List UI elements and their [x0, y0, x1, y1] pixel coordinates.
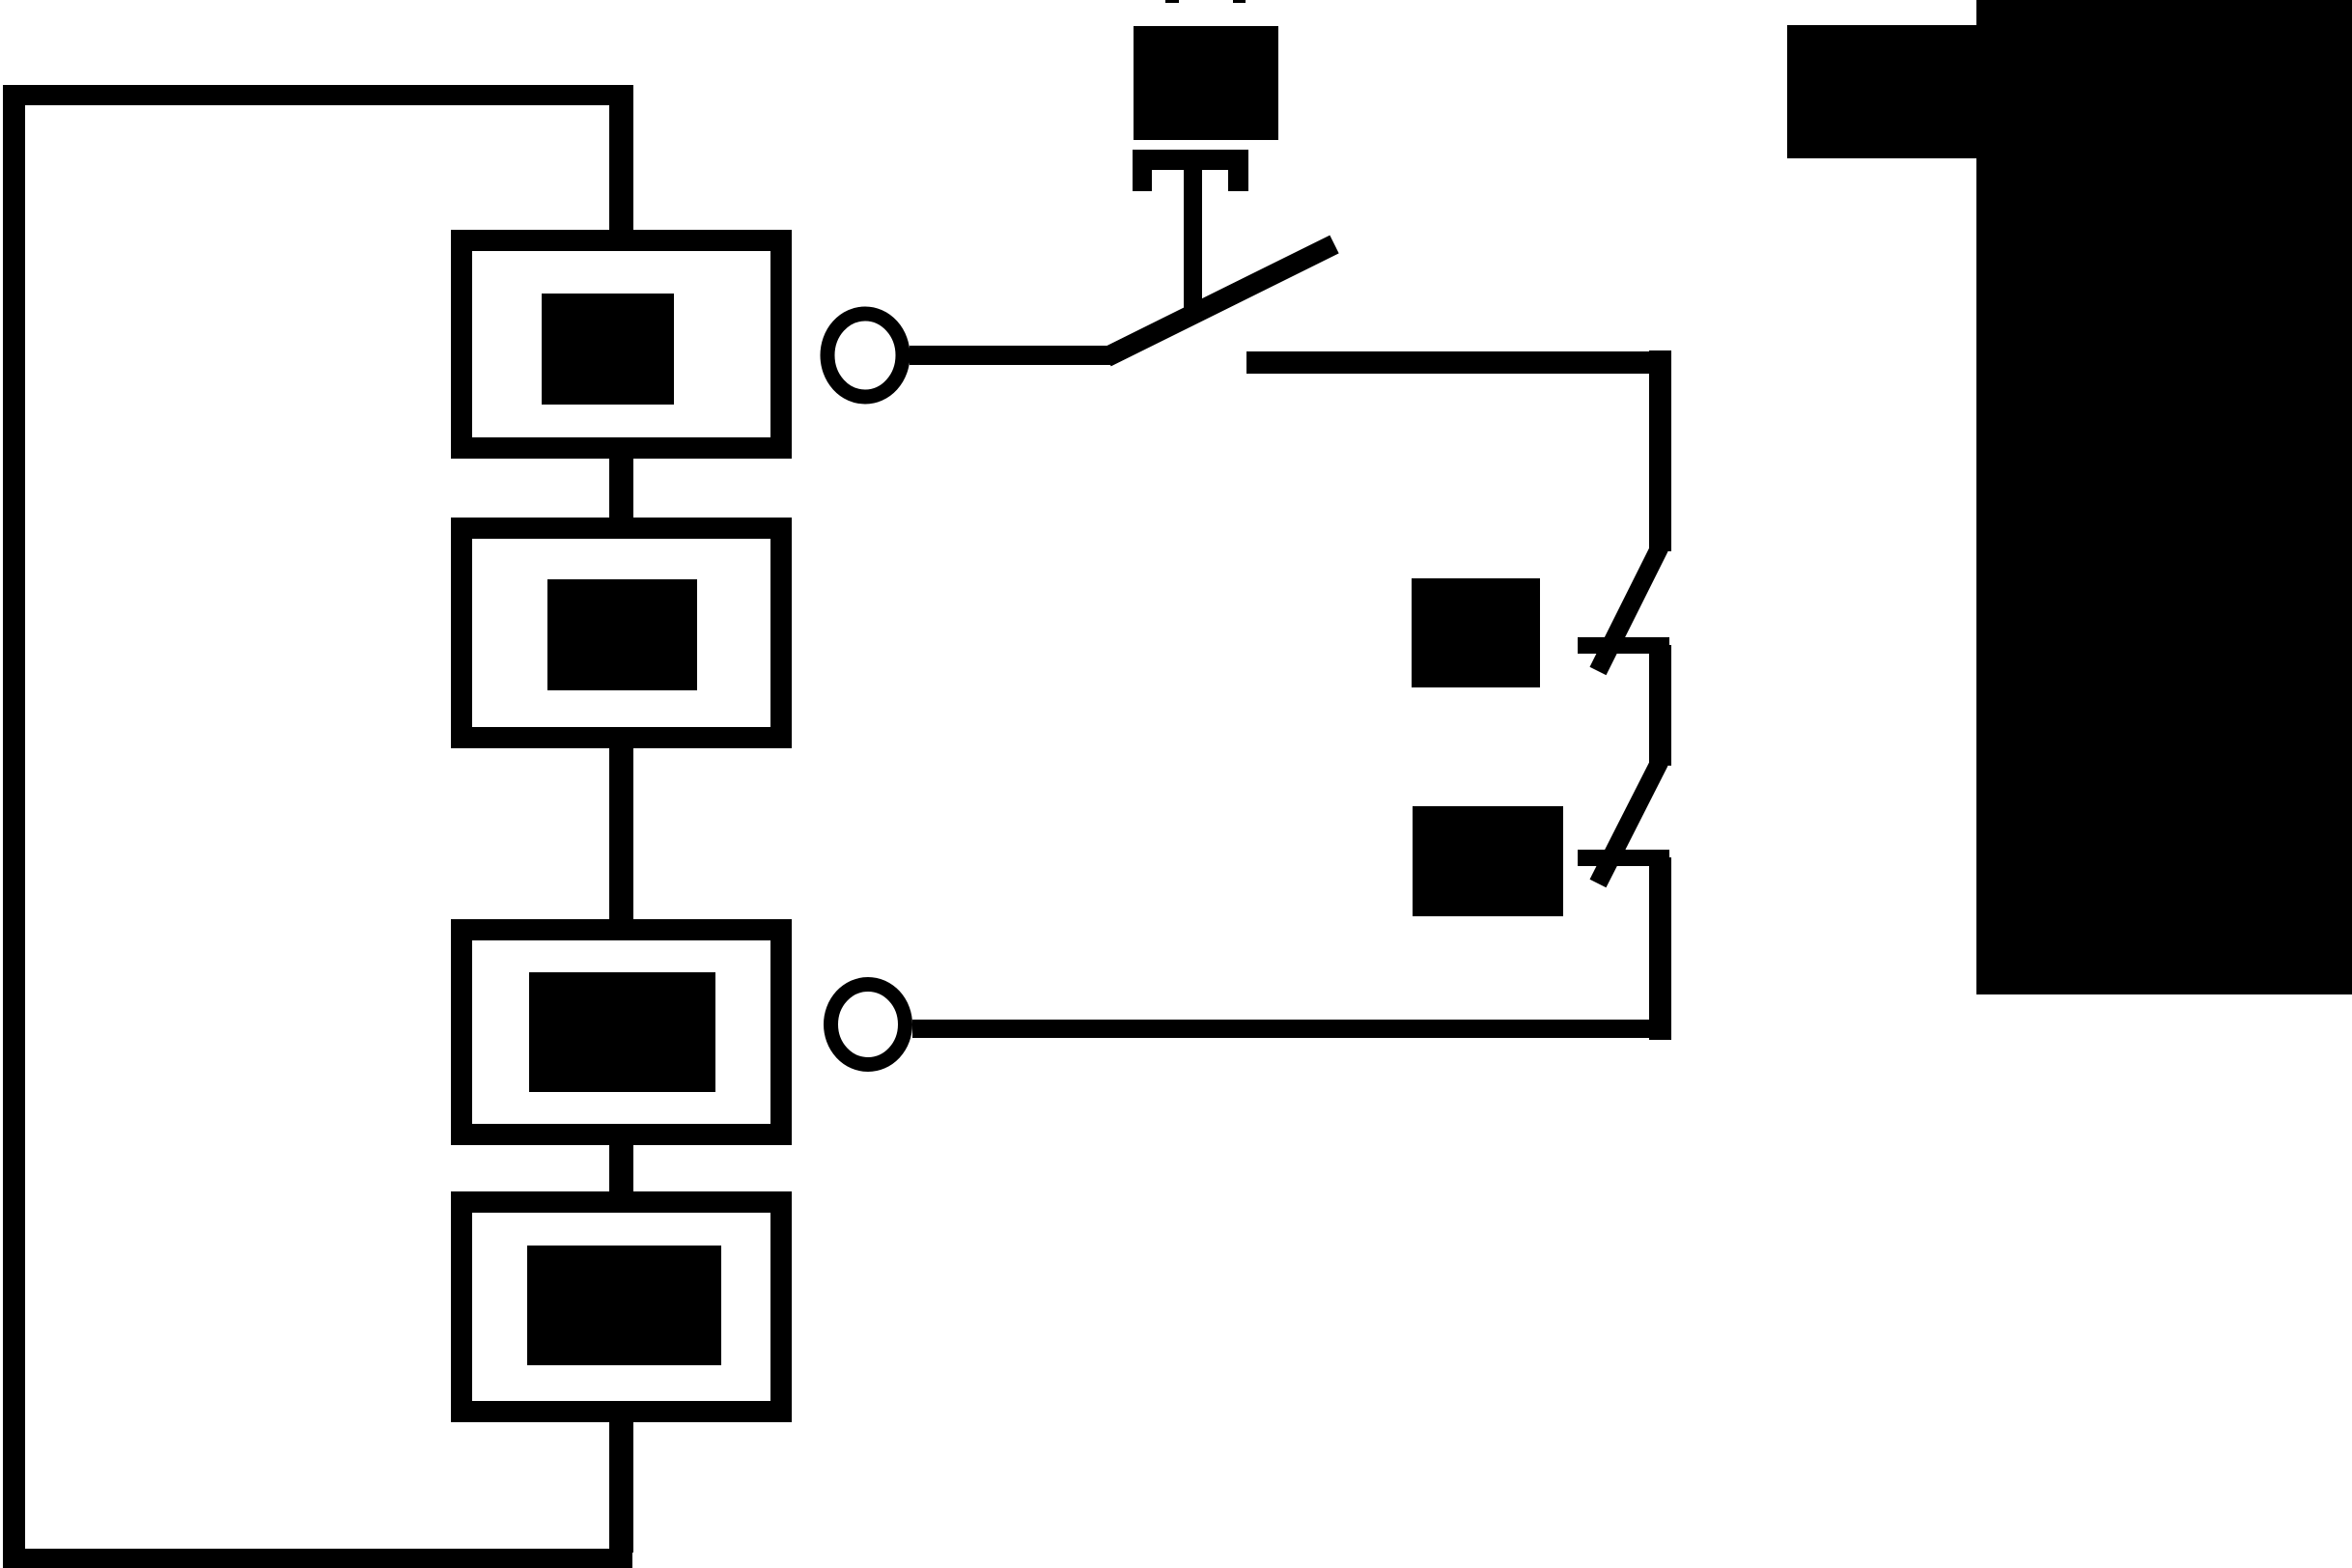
wire: B2 to B3	[609, 748, 633, 919]
label (redacted) next to big black region	[1787, 25, 1976, 158]
label B4 (redacted)	[527, 1246, 721, 1365]
wire: left loop bottom horizontal	[3, 1549, 632, 1568]
pushbutton S1 actuator: top bar	[1133, 150, 1248, 170]
component box B1 (outline)	[462, 240, 781, 448]
wire: left loop top horizontal	[3, 85, 630, 105]
wire: B3 to B4	[609, 1145, 633, 1191]
terminal circle: lower connector of B3	[831, 985, 906, 1065]
component box B4 (outline)	[462, 1202, 781, 1412]
pushbutton S1 actuator: stem	[1184, 150, 1202, 319]
wire: fixed contact side going right	[1246, 351, 1671, 374]
wire: trunk between K1 and K2	[1649, 645, 1671, 766]
label B1 (redacted)	[542, 294, 674, 405]
component box B2 (outline)	[462, 528, 781, 738]
wire: left loop left vertical	[3, 85, 25, 1568]
terminal circle: upper connector of B1	[827, 314, 903, 397]
contact K2: fixed contact tick	[1578, 850, 1669, 866]
contact K1: lever blade	[1598, 547, 1660, 671]
text sliver cropped at top edge (right)	[1233, 0, 1246, 3]
wire: from upper terminal to switch hinge	[910, 346, 1112, 365]
wire: stub from box B4 down to bottom wire	[609, 1417, 633, 1553]
contact K1: fixed contact tick	[1578, 637, 1669, 654]
big black redacted region at right	[1976, 0, 2352, 994]
label B3 (redacted)	[529, 972, 715, 1092]
switch lever: pushbutton contact blade (open)	[1106, 244, 1334, 357]
label K2 (redacted)	[1413, 806, 1563, 916]
text sliver cropped at top edge (left)	[1165, 0, 1179, 3]
wire: bottom return from lower terminal to right trunk	[912, 1020, 1671, 1038]
wire: right trunk vertical upper segment	[1649, 350, 1671, 551]
label K1 (redacted)	[1412, 578, 1540, 687]
pushbutton S1 actuator: left end leg	[1133, 150, 1152, 191]
label B2 (redacted)	[547, 579, 697, 690]
wire: stub from top wire down to box B1	[609, 85, 633, 232]
component box B3 (outline)	[462, 930, 781, 1134]
contact K2: lever blade	[1598, 762, 1660, 883]
label S1 (redacted) above pushbutton	[1134, 26, 1278, 140]
wire: trunk below K2 down to bottom return	[1649, 857, 1671, 1040]
pushbutton S1 actuator: right end leg	[1228, 150, 1248, 191]
wire: B1 to B2	[609, 459, 633, 518]
